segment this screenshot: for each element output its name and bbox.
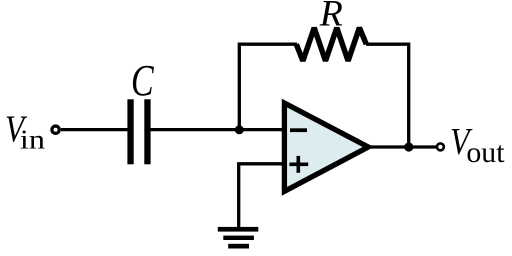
svg-text:in: in <box>20 125 45 155</box>
svg-text:C: C <box>131 56 154 105</box>
svg-text:R: R <box>319 0 343 34</box>
svg-text:out: out <box>466 136 505 169</box>
